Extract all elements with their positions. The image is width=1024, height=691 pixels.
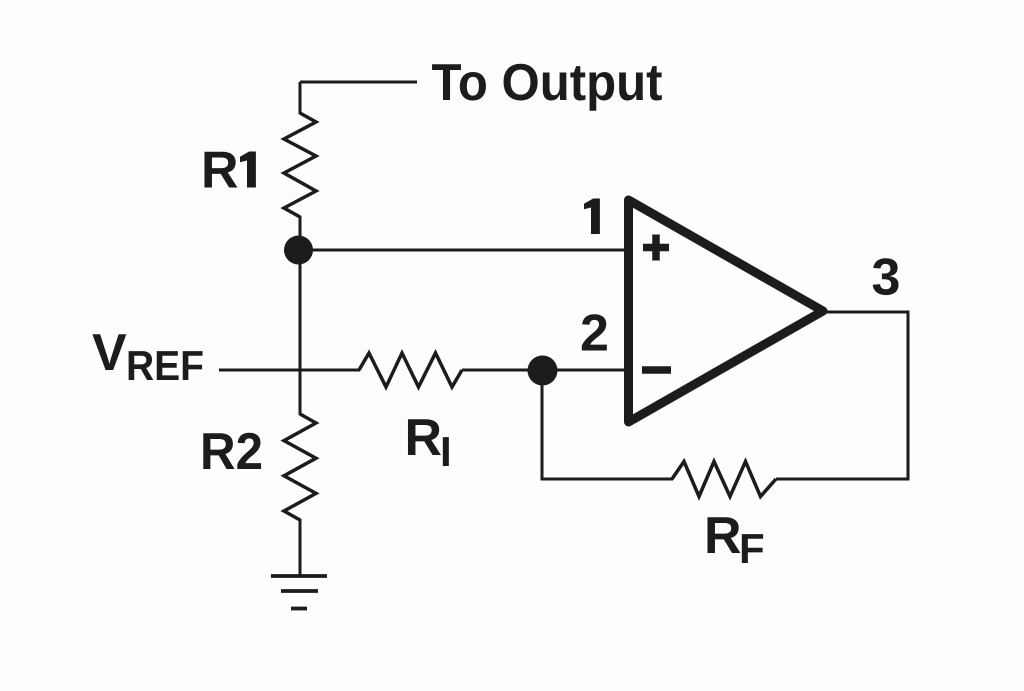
svg-text:R: R [201,142,239,200]
wire: RI to node B [462,369,543,372]
wire: node B down to feedback [541,370,544,481]
wire: vertical from stub to R1 top [299,82,302,114]
svg-text:To Output: To Output [432,54,663,112]
label RI [405,409,452,475]
wire: R2 bottom to ground [299,519,302,576]
svg-text:R: R [405,409,443,467]
wire: feedback right vertical [907,311,910,481]
op-amp plus input marker [643,235,669,261]
label RF [704,507,765,572]
wire: feedback bottom right [776,478,910,481]
wire: VREF to RI [219,369,360,372]
wire: node B to op-amp inverting input [543,369,628,372]
resistor RI [359,353,462,387]
node B junction dot [528,356,558,386]
svg-text:I: I [440,428,452,475]
wire: op-amp output [824,311,910,314]
resistor R1 [284,113,316,217]
wire: feedback bottom left [541,478,674,481]
wire: vertical through node A down to R2 [299,216,302,415]
op-amp minus input marker [642,366,671,374]
svg-text:2: 2 [580,305,609,363]
node A junction dot [284,236,313,265]
wire: node A to op-amp noninverting input [300,249,628,252]
svg-text:V: V [92,324,127,382]
svg-text:R: R [704,507,742,565]
svg-text:R2: R2 [200,423,263,481]
pin number 1 [584,199,600,235]
ground [271,576,327,609]
svg-text:REF: REF [126,342,204,389]
label R1 [201,142,256,200]
wire: output stub horizontal [300,81,417,84]
resistor RF [672,462,776,497]
op-amp U1 [629,200,824,422]
svg-text:3: 3 [872,249,901,307]
label VREF [92,324,204,389]
resistor R2 [284,414,316,520]
svg-text:F: F [739,525,765,572]
